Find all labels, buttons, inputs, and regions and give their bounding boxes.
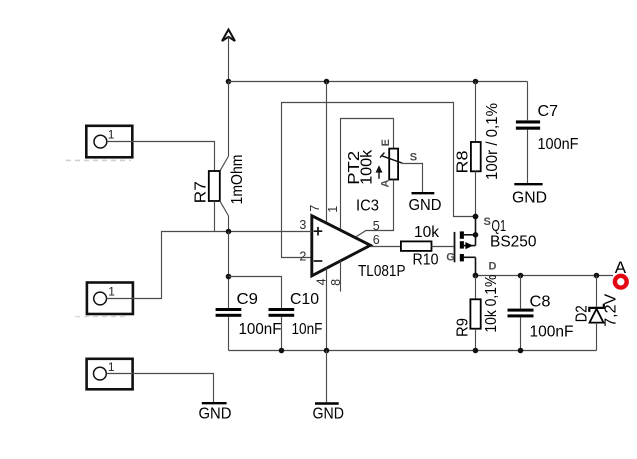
svg-text:100k: 100k: [359, 150, 376, 185]
faint silk line under X1: [66, 159, 131, 161]
svg-text:3: 3: [299, 218, 306, 232]
svg-text:C7: C7: [538, 103, 559, 120]
wire drain rail: [476, 275, 614, 277]
junction C10 bottom: [279, 348, 285, 354]
svg-text:10k: 10k: [414, 224, 439, 241]
svg-text:S: S: [484, 216, 491, 228]
adjust arrow: [378, 169, 380, 179]
svg-text:R8: R8: [455, 151, 472, 174]
resistor R9: [455, 274, 500, 350]
wire pin7 drop: [326, 82, 328, 223]
wire pin1 to offset network: [341, 119, 394, 231]
wire R7 bottom sense: [214, 201, 216, 232]
svg-text:BS250: BS250: [490, 234, 537, 251]
svg-text:R9: R9: [455, 318, 472, 337]
resistor R8: [455, 82, 502, 217]
connector X1: [86, 126, 132, 158]
wire X2 up to non-inverting net: [107, 232, 215, 299]
wire main line down to C9: [228, 232, 230, 309]
svg-text:8: 8: [329, 279, 343, 286]
svg-text:GND: GND: [199, 406, 232, 423]
svg-text:1mOhm: 1mOhm: [229, 155, 246, 205]
svg-text:D: D: [489, 261, 497, 273]
svg-text:100nF: 100nF: [538, 136, 579, 153]
wire supply drop: [228, 37, 230, 82]
supply arrow: [222, 30, 235, 42]
svg-text:E: E: [380, 139, 392, 146]
junction C8 bottom: [518, 348, 524, 354]
svg-text:1: 1: [108, 285, 115, 299]
node S junction: [473, 214, 479, 220]
svg-text:R10: R10: [413, 252, 439, 269]
svg-text:D2: D2: [574, 305, 591, 322]
wire top rail: [229, 81, 528, 83]
junction pin7 drop: [324, 79, 330, 85]
wire pin4 to ground rail: [326, 268, 328, 350]
wire to op-amp pin3: [215, 231, 312, 233]
diode D2 zener: [574, 276, 620, 351]
wire PT2 A to pin5: [356, 180, 393, 237]
wire X3 to GND: [106, 374, 213, 403]
svg-text:C10: C10: [290, 291, 319, 308]
svg-text:G: G: [446, 251, 455, 263]
ground C7: [512, 184, 547, 206]
junction drain node: [473, 273, 479, 279]
svg-text:100nF: 100nF: [530, 324, 574, 341]
svg-text:2: 2: [299, 249, 306, 263]
connector X2: [87, 283, 133, 315]
wiper: [382, 156, 403, 163]
resistor R7 (1mOhm shunt): [193, 82, 247, 232]
resistor R10: [401, 224, 439, 269]
svg-text:6: 6: [373, 233, 380, 247]
junction R9 bottom: [473, 348, 479, 354]
faint silk line under X2: [75, 316, 126, 318]
wire gnd drop: [326, 351, 328, 403]
wire feedback loop from S node to op-amp inverting input: [282, 103, 476, 258]
node A: [615, 258, 627, 288]
capacitor C10: [269, 291, 323, 338]
svg-text:A: A: [380, 180, 392, 188]
wire C7 bottom lead: [527, 130, 529, 183]
svg-text:10nF: 10nF: [292, 321, 323, 338]
svg-text:1: 1: [326, 206, 340, 213]
wire tap to C10: [229, 277, 282, 309]
svg-text:R7: R7: [193, 181, 210, 203]
wire X1 to R7 top sense: [107, 142, 215, 172]
wire R10 to gate: [432, 246, 454, 248]
junction R8 top: [473, 79, 479, 85]
svg-text:GND: GND: [313, 406, 345, 423]
junction C10 tap: [226, 274, 232, 280]
ground PT2 wiper: [409, 193, 442, 214]
svg-text:10k 0,1%: 10k 0,1%: [483, 274, 500, 332]
svg-text:5: 5: [373, 219, 380, 233]
wire C10 bottom: [281, 317, 283, 351]
capacitor C9: [216, 291, 282, 338]
svg-text:C8: C8: [530, 294, 551, 311]
svg-text:S: S: [410, 152, 417, 164]
svg-text:TL081P: TL081P: [358, 263, 406, 280]
ground mid: [313, 404, 345, 423]
svg-text:1: 1: [108, 360, 115, 374]
svg-text:GND: GND: [512, 190, 547, 207]
wire op-amp output: [370, 246, 401, 248]
wire PT2 wiper to GND: [402, 164, 422, 193]
junction gnd tap: [324, 348, 330, 354]
junction main line / pin3: [226, 229, 232, 235]
capacitor C8: [508, 276, 574, 351]
svg-text:C9: C9: [237, 291, 259, 308]
capacitor C7: [516, 103, 579, 153]
connector X3: [87, 359, 133, 390]
op-amp IC3: [299, 198, 405, 286]
svg-text:7: 7: [308, 205, 322, 212]
svg-text:100nF: 100nF: [239, 321, 282, 338]
wire pin8 stub: [340, 261, 342, 292]
junction D2 top: [594, 273, 600, 279]
transistor Q1 BS250: [446, 216, 537, 276]
svg-text:100r / 0,1%: 100r / 0,1%: [484, 103, 501, 180]
junction C8 top: [518, 273, 524, 279]
svg-text:7,2V: 7,2V: [603, 293, 620, 327]
wire C9 bottom: [228, 317, 230, 351]
svg-text:GND: GND: [409, 197, 442, 214]
svg-text:IC3: IC3: [356, 198, 379, 215]
potentiometer PT2: [346, 139, 417, 187]
wire C7 top lead: [527, 82, 529, 121]
svg-text:1: 1: [108, 128, 115, 142]
junction top rail left: [226, 79, 232, 85]
wire bottom rail: [229, 350, 597, 352]
svg-text:Q1: Q1: [492, 218, 507, 235]
ground X3: [199, 403, 232, 422]
